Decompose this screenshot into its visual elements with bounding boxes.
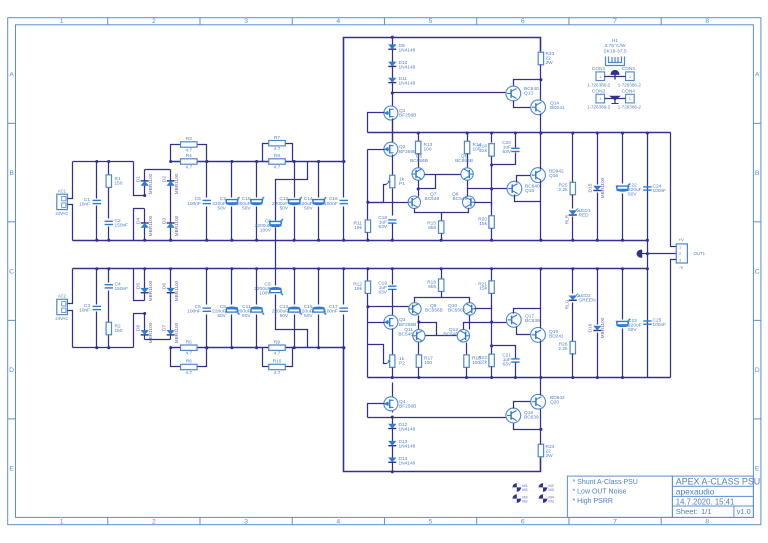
capacitor C17 100nF — [343, 269, 345, 305]
svg-text:P2: P2 — [399, 361, 405, 367]
svg-text:BC556B: BC556B — [425, 308, 443, 314]
svg-text:3.75°C/W: 3.75°C/W — [604, 43, 625, 49]
wire Q7/Q8 emitters to R15 — [415, 209, 469, 213]
capacitor C25 100nF — [643, 321, 651, 324]
node R21/C21 junction — [490, 344, 493, 347]
wire AC2 down to bridge mid — [134, 314, 145, 348]
node bus at C6 — [205, 267, 208, 270]
svg-text:1: 1 — [629, 97, 631, 101]
wire 0V column C24/C25 to OUT1 pin 2 — [647, 133, 649, 378]
wire P2 to -V rail — [392, 368, 394, 378]
svg-text:100nF: 100nF — [324, 201, 338, 207]
node rail at C12 — [293, 160, 296, 163]
svg-text:7: 7 — [613, 519, 617, 526]
node top bus at D9 chain — [391, 36, 394, 39]
wire Q2 gate down to R11 and P1 wiper node — [367, 150, 369, 221]
wire Q20 to -V rail — [540, 378, 542, 396]
wire R14 to Q6 — [467, 154, 469, 169]
svg-text:100V: 100V — [260, 228, 272, 234]
svg-text:4.7: 4.7 — [274, 165, 281, 171]
node bus at C16 — [342, 239, 345, 242]
diode D16 MBR1100 shunt — [597, 269, 599, 325]
node bus0B at LED2 — [571, 267, 574, 270]
svg-text:2: 2 — [152, 519, 156, 526]
svg-text:R5: R5 — [186, 339, 192, 345]
capacitor C7 220uF 50V — [231, 162, 233, 198]
svg-text:v1.0: v1.0 — [737, 507, 751, 516]
svg-text:OUT1: OUT1 — [694, 251, 706, 256]
wire Q6 collector to Q8 — [467, 181, 469, 197]
svg-text:MBR1100: MBR1100 — [174, 215, 180, 236]
connector CON1 — [596, 72, 605, 81]
svg-text:BF256B: BF256B — [399, 149, 416, 155]
node bus0B at C4 — [107, 267, 110, 270]
svg-text:4: 4 — [336, 18, 340, 25]
svg-text:D2: D2 — [162, 176, 168, 183]
svg-text:4.7: 4.7 — [274, 370, 281, 376]
node bus at C7 — [230, 239, 233, 242]
svg-text:D7: D7 — [162, 325, 168, 332]
diode column D6/D7 — [170, 269, 172, 289]
svg-text:AC2: AC2 — [58, 294, 67, 299]
wire R24 to Q20 — [540, 409, 542, 445]
wire Q18 emitter arm — [514, 423, 541, 430]
node base line at R21 column — [490, 320, 493, 323]
capacitor C13 2200uF 100V — [269, 287, 283, 296]
svg-text:R6: R6 — [186, 359, 192, 365]
wire Q19 emitter to -V rail column — [540, 341, 542, 378]
resistor R7 4.7 bypass — [263, 144, 293, 162]
diode D1 MBR1100 — [141, 181, 149, 186]
svg-text:R7: R7 — [274, 135, 280, 141]
node bus0B at output column — [539, 267, 542, 270]
transistor Q14 BD241 — [531, 100, 546, 115]
title block — [672, 476, 753, 517]
node bus0B at R16 — [440, 267, 443, 270]
node bus0B at D5 col — [143, 267, 146, 270]
svg-text:3: 3 — [244, 519, 248, 526]
svg-text:RLG: RLG — [565, 299, 570, 309]
svg-text:1N4148: 1N4148 — [399, 444, 416, 450]
transistor Q20 BD942 — [531, 394, 546, 409]
svg-text:2.2k: 2.2k — [558, 187, 568, 193]
node bus0B at C3 — [95, 267, 98, 270]
wire +V rail (regulated top) — [368, 132, 671, 134]
wire bottom bridge tie — [145, 339, 171, 341]
svg-text:4.7: 4.7 — [185, 370, 192, 376]
svg-text:1N4148: 1N4148 — [399, 427, 416, 433]
svg-text:C: C — [9, 268, 14, 275]
svg-text:100nF: 100nF — [653, 322, 667, 328]
svg-text:8: 8 — [705, 18, 709, 25]
wire mirror diode connection Q5 — [419, 175, 436, 189]
wire Q5 collector to Q7 — [418, 181, 420, 197]
resistor R2 150 — [108, 269, 110, 283]
node -V rail at C21 — [514, 376, 517, 379]
mounting hole M3 — [513, 494, 528, 503]
svg-text:BF256B: BF256B — [399, 403, 416, 409]
node Q11 collector — [417, 320, 420, 323]
svg-text:150: 150 — [115, 181, 123, 187]
svg-text:B: B — [755, 170, 760, 177]
capacitor C11 2200uF 50V — [256, 269, 258, 305]
svg-text:6k8: 6k8 — [428, 225, 436, 231]
wire Q16 emitter to +V rail column — [540, 133, 542, 170]
node rail at C5 — [205, 160, 208, 163]
node rail at C15 — [317, 346, 320, 349]
wire P1 wiper to gate node — [368, 185, 387, 203]
node +V rail at C20 — [514, 131, 517, 134]
node bus0B at D6 col — [169, 267, 172, 270]
svg-text:1-726386-2: 1-726386-2 — [587, 82, 611, 87]
node R18/C20 junction — [490, 163, 493, 166]
node -V rail at D16 — [596, 376, 599, 379]
node +V rail at R14 — [466, 131, 469, 134]
trimmer P2 1k — [390, 355, 395, 368]
node bus0B at R21 — [490, 267, 493, 270]
node +V rail at R13 — [417, 131, 420, 134]
node -raw rail start — [169, 346, 172, 349]
node chain at Q4 — [391, 416, 394, 419]
svg-text:D16: D16 — [588, 323, 594, 332]
svg-text:D: D — [755, 367, 760, 374]
svg-text:Q16: Q16 — [549, 173, 558, 179]
transistor Q7 BC546 — [408, 196, 420, 208]
svg-text:50V: 50V — [280, 205, 289, 211]
led LED2 GREEN — [572, 269, 574, 294]
svg-text:D3: D3 — [162, 218, 168, 225]
resistor R16 6k8 — [441, 269, 443, 279]
svg-text:BF256B: BF256B — [399, 322, 416, 328]
wire -raw rail — [171, 347, 344, 349]
wire Q11-Q12 base tie — [426, 335, 458, 337]
svg-text:24VAC: 24VAC — [55, 316, 68, 321]
wire R11 to 0V bus — [367, 233, 369, 241]
node 0V bus bottom at C25 column — [646, 267, 649, 270]
svg-text:15k: 15k — [479, 286, 487, 292]
wire LED1 to bus — [572, 217, 574, 241]
resistor R20 15k — [489, 216, 494, 229]
node bus at C22 — [621, 239, 624, 242]
diode D13 1N4148 — [388, 441, 396, 446]
svg-text:1-726386-2: 1-726386-2 — [618, 82, 642, 87]
svg-text:63V: 63V — [378, 224, 387, 230]
node +V rail at C24 — [646, 131, 649, 134]
svg-text:19k: 19k — [354, 225, 362, 231]
capacitor C15 220uF 50V — [318, 269, 320, 305]
wire Q1 gate to +V rail — [368, 113, 385, 133]
wire Q16 collector to output column — [540, 181, 542, 202]
svg-text:BC639: BC639 — [524, 415, 539, 421]
node rail2 at R2 — [107, 346, 110, 349]
node bus at C15 — [317, 267, 320, 270]
ground symbol between CON2 and CON4 — [611, 96, 620, 103]
svg-text:* Low OUT Noise: * Low OUT Noise — [573, 489, 627, 496]
svg-text:MBR1100: MBR1100 — [148, 173, 154, 194]
wire P2 wiper to node — [368, 345, 387, 364]
svg-text:150nF: 150nF — [115, 223, 129, 229]
node bus at C17 — [342, 267, 345, 270]
node bus at C1 — [95, 239, 98, 242]
wire R18 to junction — [491, 157, 493, 217]
diode column D1/D4 — [144, 170, 146, 181]
wire +V feed to OUT1 pin 1 — [671, 133, 677, 247]
wire Q3 to P2 — [392, 329, 394, 355]
capacitor C2 150nF — [105, 221, 113, 224]
wire AC1 pin2 to 0V bus — [68, 205, 73, 241]
svg-text:8: 8 — [705, 519, 709, 526]
capacitor C23 220uF 50V — [622, 269, 624, 320]
svg-text:D4: D4 — [136, 218, 142, 225]
wire R23 to Q14 collector — [540, 65, 542, 101]
capacitor C24 100nF — [643, 187, 651, 190]
resistor R18 22k — [491, 133, 493, 143]
wire LED2 to R26 — [572, 303, 574, 342]
connector AC2 24VAC — [55, 294, 68, 322]
wire R22 to -V rail — [491, 367, 493, 378]
transistor Q5 BC556B — [412, 168, 424, 180]
capacitor C4 150nF — [105, 285, 113, 288]
svg-text:2: 2 — [152, 18, 156, 25]
resistor R9 4.7 series — [269, 345, 286, 350]
svg-text:2W: 2W — [546, 453, 554, 459]
wire Q3 gate column — [367, 303, 369, 378]
node bus at R11 — [366, 239, 369, 242]
capacitor C19 1uF 63V — [392, 269, 394, 285]
node rail at C14 — [317, 160, 320, 163]
wire Q17 collector line — [514, 309, 541, 314]
wire D9-D11 chain column — [392, 38, 394, 107]
wire Q5-Q6 base tie — [425, 174, 461, 176]
svg-text:SK18-37.5: SK18-37.5 — [603, 48, 626, 54]
svg-text:A: A — [755, 71, 760, 78]
svg-text:4.7: 4.7 — [185, 148, 192, 154]
mounting hole M2 — [539, 483, 554, 492]
svg-text:19k: 19k — [354, 286, 362, 292]
wire R25 to LED1 — [572, 195, 574, 209]
svg-text:E: E — [9, 465, 14, 472]
wire output column to 0V bus bottom — [540, 269, 542, 309]
svg-text:50V: 50V — [217, 313, 226, 319]
svg-text:100: 100 — [424, 360, 432, 366]
node rail end at long vertical — [342, 160, 345, 163]
resistor R6 4.7 bypass — [171, 348, 207, 367]
wire R15 to bus — [441, 234, 443, 241]
wire AC down to bridge mid — [134, 162, 145, 196]
svg-text:1N4148: 1N4148 — [399, 461, 416, 467]
wire CON1-CON3 link — [605, 76, 626, 78]
svg-text:1: 1 — [629, 75, 631, 79]
wire OUT1 pin 2 stub — [642, 253, 677, 255]
resistor R25 2.2k — [572, 133, 574, 183]
wire top bus (+raw top loop) — [344, 38, 541, 162]
svg-text:5: 5 — [429, 18, 433, 25]
resistor R26 2.2k — [570, 341, 575, 354]
wire -V rail (regulated bottom) — [368, 377, 671, 379]
resistor R19 100 — [466, 343, 468, 355]
node rail at C8 — [230, 346, 233, 349]
svg-text:CON1: CON1 — [592, 66, 606, 72]
wire mirror connection Q11 — [419, 323, 437, 336]
transistor Q16 BD942 — [531, 168, 546, 183]
svg-text:BF256B: BF256B — [399, 113, 416, 119]
svg-text:100nF: 100nF — [187, 309, 201, 315]
svg-text:63V: 63V — [502, 149, 511, 155]
node rail at C13 — [293, 346, 296, 349]
transistor Q8 BC546 — [463, 196, 475, 208]
wire Q12 side link — [475, 307, 492, 309]
svg-text:1/1: 1/1 — [701, 507, 712, 516]
wire R26 to -V rail — [572, 354, 574, 378]
node OUT 0V junction — [646, 252, 649, 255]
svg-text:BD241: BD241 — [550, 105, 565, 111]
svg-text:100nF: 100nF — [653, 188, 667, 194]
wire Q18 base line — [368, 417, 508, 419]
wire 0V bus bottom half — [73, 268, 648, 270]
wire centre-tap link with C8/C13 — [276, 162, 308, 221]
svg-text:R4: R4 — [186, 153, 192, 159]
svg-text:A: A — [9, 71, 14, 78]
connector AC1 24VAC — [55, 189, 68, 217]
resistor R11 19k — [365, 220, 370, 233]
diode D10 1N4148 — [388, 62, 396, 67]
node rail at C11 — [255, 346, 258, 349]
transistor Q11 BC546 — [413, 330, 425, 342]
resistor R21 15k — [491, 269, 493, 281]
node +V rail at D15 — [596, 131, 599, 134]
svg-text:63V: 63V — [378, 290, 387, 296]
wire D12-D14 chain column — [392, 418, 394, 472]
svg-text:MBR1100: MBR1100 — [600, 177, 606, 198]
resistor R13 100 — [418, 133, 420, 142]
svg-text:CON4: CON4 — [622, 88, 636, 94]
svg-text:4.7: 4.7 — [185, 165, 192, 171]
svg-text:1-726386-2: 1-726386-2 — [618, 105, 642, 110]
transistor Q3 BF256B — [384, 315, 398, 329]
svg-text:7: 7 — [613, 18, 617, 25]
diode D15 MBR1100 shunt — [597, 133, 599, 185]
svg-text:Q13: Q13 — [524, 91, 533, 97]
capacitor C3 10nF — [96, 269, 98, 305]
transistor Q9 BC556B — [409, 303, 421, 315]
node bus at D3 — [169, 239, 172, 242]
wire CON2-CON4 link — [605, 98, 626, 100]
node bottom bus at chain — [391, 470, 394, 473]
transistor Q13 BC640 — [506, 86, 521, 101]
svg-text:MBR1100: MBR1100 — [174, 173, 180, 194]
node chain to Q13 base — [391, 91, 394, 94]
svg-text:50V: 50V — [628, 327, 637, 333]
svg-text:MBR1100: MBR1100 — [148, 215, 154, 236]
svg-text:1N4148: 1N4148 — [399, 81, 416, 87]
capacitor C12 2200uF 50V — [294, 162, 296, 198]
resistor R12 19k — [367, 269, 369, 281]
wire to Q11 base — [368, 306, 409, 308]
svg-text:63V: 63V — [502, 362, 511, 368]
wire Q9 collector to Q11 — [418, 316, 420, 331]
svg-text:D5: D5 — [136, 283, 142, 290]
wire Q14 emitter to +V rail — [540, 114, 542, 133]
svg-text:MBR1100: MBR1100 — [174, 280, 180, 301]
resistor R23 22 2W — [538, 52, 543, 65]
svg-text:Q20: Q20 — [550, 400, 559, 406]
notes box — [567, 476, 672, 517]
node -V rail at R26 — [571, 376, 574, 379]
connector CON2 — [596, 94, 605, 103]
wire AC line top-left — [73, 161, 134, 163]
wire Q9/Q10 emitters tie — [415, 298, 470, 303]
node -V rail at R19 — [465, 376, 468, 379]
svg-text:5: 5 — [429, 519, 433, 526]
node P2 wiper / Q11 base node — [366, 305, 369, 308]
node -V rail at Q20 column — [539, 376, 542, 379]
wire Q10 collector to Q12 — [469, 316, 471, 330]
node rail at C17 — [342, 346, 345, 349]
svg-text:6k8: 6k8 — [428, 284, 436, 290]
diode D9 1N4148 — [388, 44, 396, 49]
node bus at C8 — [230, 267, 233, 270]
diode D3 MBR1100 — [167, 223, 175, 228]
svg-text:R8: R8 — [274, 153, 280, 159]
svg-text:D8: D8 — [136, 325, 142, 332]
diode D2 MBR1100 — [167, 181, 175, 186]
node -V rail at C23 — [621, 376, 624, 379]
node +V rail at R18 — [490, 131, 493, 134]
svg-text:100V: 100V — [259, 291, 271, 297]
svg-text:2.2k: 2.2k — [558, 346, 568, 352]
svg-text:GREEN: GREEN — [579, 298, 597, 304]
svg-text:BC546: BC546 — [453, 196, 468, 202]
node rail at C5 — [205, 160, 208, 163]
svg-text:Q15: Q15 — [525, 188, 534, 194]
svg-text:RLR: RLR — [565, 214, 570, 224]
capacitor C6 100nF — [206, 269, 208, 305]
svg-text:MBR1100: MBR1100 — [148, 322, 154, 343]
capacitor C20 1uF 63V — [492, 153, 516, 165]
heatsink H1 SK18-37.5 — [606, 57, 625, 66]
svg-text:50V: 50V — [242, 205, 251, 211]
transistor Q17 BC639 — [506, 313, 521, 328]
svg-text:1: 1 — [599, 75, 601, 79]
svg-text:AC1: AC1 — [58, 189, 67, 194]
wire D15 to bus — [597, 193, 599, 241]
diode column D5/D8 — [144, 269, 146, 289]
resistor R10 4.7 bypass — [263, 348, 293, 367]
resistor R5 4.7 series — [181, 345, 198, 350]
node Q18 emitter arm — [539, 428, 542, 431]
svg-text:100nF: 100nF — [187, 201, 201, 207]
mounting hole M1 — [513, 483, 528, 492]
wire D16 to -V rail — [597, 333, 599, 378]
svg-text:M3: M3 — [548, 498, 553, 503]
shield symbol between CON1 and CON3 — [611, 70, 619, 79]
svg-text:* High PSRR: * High PSRR — [573, 498, 613, 505]
transistor Q10 BC556B — [463, 303, 475, 315]
wire R13 to Q5 — [418, 154, 420, 169]
node AC rail at R1 — [107, 160, 110, 163]
node bus at R15 — [440, 239, 443, 242]
wire -V feed to OUT1 pin 3 — [671, 260, 677, 378]
svg-text:D6: D6 — [162, 283, 168, 290]
wire Q13 base line — [393, 92, 508, 94]
wire R16 to Q9/Q10 emitters — [441, 292, 443, 298]
svg-text:C: C — [755, 268, 760, 275]
svg-text:15k: 15k — [479, 221, 487, 227]
resistor R15 6k8 — [441, 213, 443, 221]
diode D6 MBR1100 — [167, 288, 175, 293]
wire AC2 pin2 to rail — [68, 311, 73, 348]
svg-text:M3: M3 — [522, 487, 527, 492]
